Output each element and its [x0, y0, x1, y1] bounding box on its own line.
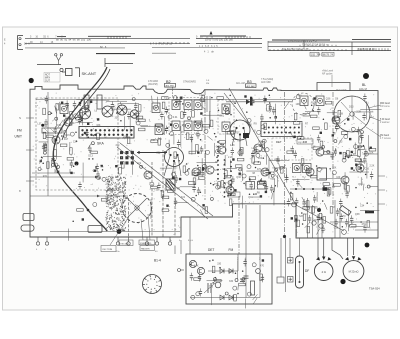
resistor R120	[205, 207, 208, 214]
resistor R164	[241, 147, 244, 154]
junction dot108	[102, 169, 104, 171]
wire DF left to board	[289, 238, 291, 258]
terminal25	[43, 151, 46, 154]
dial cord D	[117, 147, 208, 219]
svg-text:5 16 55 6: 5 16 55 6 7 8	[30, 36, 63, 39]
electrolytic C56	[247, 119, 251, 123]
transistor Q14	[356, 164, 364, 172]
diode D2	[229, 269, 233, 274]
junction dot32	[224, 105, 226, 107]
horizontal wire above bottom edge	[50, 231, 180, 233]
IF transformer T8	[222, 122, 230, 132]
capacitor C68	[362, 113, 365, 121]
junction dot98	[329, 168, 331, 170]
wire diagonal27	[120, 102, 122, 106]
svg-text:1K: 1K	[44, 124, 47, 127]
wire diagonal24	[253, 294, 258, 300]
capacitor C116	[321, 225, 324, 233]
dial pulley wheel (right)	[334, 96, 370, 132]
junction dot39	[218, 109, 220, 111]
solder pad32	[265, 191, 267, 193]
dark component block	[243, 133, 249, 138]
junction dot42	[162, 133, 164, 135]
capacitor C81	[317, 215, 320, 223]
terminal22	[188, 117, 191, 120]
boxed label under B3	[246, 84, 257, 88]
svg-text:OSC TRIM: OSC TRIM	[102, 249, 112, 251]
junction dot24	[222, 144, 224, 146]
electrolytic C59	[342, 158, 346, 162]
junction dot51	[323, 186, 325, 188]
resistor R45	[43, 132, 46, 139]
diode D4	[229, 295, 233, 300]
junction dot97	[365, 174, 367, 176]
left edge tick y181	[26, 180, 34, 182]
big transistor can Q-A	[164, 148, 184, 180]
label box AM PADDER	[140, 246, 155, 251]
capacitor C107	[165, 107, 168, 115]
wire v14	[168, 140, 170, 155]
resistor R163	[252, 157, 255, 164]
svg-text:Q14: Q14	[358, 183, 363, 186]
transistor Q9	[226, 186, 234, 194]
junction dot103	[165, 129, 167, 131]
wire x175 to sub-board	[174, 246, 176, 255]
solder pad29	[172, 177, 174, 179]
wire v25	[347, 209, 349, 231]
resistor R50	[138, 105, 141, 112]
junction dot27	[210, 183, 212, 185]
capacitor C100	[276, 156, 279, 164]
junction dot63	[360, 221, 362, 223]
svg-text:D34: D34	[123, 136, 128, 139]
electrolytic C67	[185, 171, 189, 175]
wire h13	[292, 179, 309, 181]
wire diagonal3	[58, 120, 63, 128]
svg-text:82 6: 82 6	[100, 46, 107, 49]
wire diagonal5	[201, 118, 203, 124]
resistor R151	[192, 111, 195, 118]
wire v46	[360, 177, 362, 186]
svg-text:10K: 10K	[296, 103, 301, 106]
junction dot3	[54, 160, 56, 162]
tuning gang capacitor (dashed circle)	[123, 194, 152, 223]
solder pad33	[234, 189, 236, 191]
resistor R46	[54, 150, 57, 157]
detector sub-board outline	[186, 254, 272, 304]
electrolytic C43	[228, 181, 232, 185]
wire v17	[173, 135, 175, 145]
electrolytic C84	[170, 132, 174, 136]
capacitor C82	[302, 199, 305, 207]
junction dot54	[344, 123, 346, 125]
svg-text:STANDARD: STANDARD	[183, 80, 196, 83]
junction dot12	[88, 158, 90, 160]
resistor R53	[47, 135, 54, 138]
vertical wire x152	[151, 162, 153, 237]
svg-text:R17: R17	[363, 161, 368, 164]
black screw dot top-right	[363, 73, 369, 79]
svg-text:220: 220	[248, 123, 253, 126]
junction dot21	[269, 102, 271, 104]
wire diagonal13	[312, 104, 314, 111]
wire right of sub-board 2	[285, 238, 287, 292]
wire diagonal21	[245, 181, 247, 186]
diode D3	[220, 295, 224, 300]
capacitor C124	[42, 143, 45, 151]
solder pad6	[84, 132, 86, 134]
resistor R93	[313, 147, 320, 150]
svg-text:1K: 1K	[110, 115, 113, 118]
junction dot102	[182, 103, 184, 105]
dial scale frequency numbers	[4, 35, 375, 56]
wire h9	[180, 186, 196, 188]
resistor R159	[323, 217, 326, 224]
resistor R91	[287, 151, 294, 154]
svg-text:5.6K: 5.6K	[176, 102, 181, 105]
svg-text:1K: 1K	[113, 105, 116, 108]
resistor R127	[77, 209, 84, 212]
resistor R47	[127, 137, 130, 144]
capacitor C54	[265, 184, 268, 192]
IF transformer T4	[172, 121, 180, 131]
capacitor C52	[260, 114, 263, 122]
resistor R162	[69, 119, 72, 126]
wire v44	[59, 102, 61, 111]
wire v30	[274, 178, 276, 191]
terminal3	[140, 165, 143, 168]
terminal11	[367, 185, 370, 188]
svg-text:2 warmer: 2 warmer	[380, 121, 390, 124]
vertical wire x128	[128, 198, 130, 237]
sub-board internal wire 3	[259, 254, 261, 298]
junction dot14	[186, 163, 188, 165]
junction dot80	[215, 277, 217, 279]
resistor R104	[327, 190, 330, 197]
wire row y173	[32, 169, 75, 173]
junction dot38	[160, 190, 162, 192]
svg-text:1K: 1K	[104, 136, 107, 139]
ceramic filter DF	[296, 256, 304, 288]
junction dot17	[215, 136, 217, 138]
leader to trimmer label 3	[110, 218, 128, 245]
junction dot66	[302, 223, 304, 225]
wire diagonal22	[237, 286, 239, 290]
resistor R155	[91, 151, 98, 154]
capacitor C87	[250, 182, 253, 190]
resistor R102	[311, 175, 318, 178]
resistor R134	[212, 266, 215, 273]
junction dot86	[235, 272, 237, 274]
svg-text:D36: D36	[271, 171, 276, 174]
solder pad2	[115, 165, 117, 167]
junction dot101	[351, 154, 353, 156]
svg-text:2.2K: 2.2K	[369, 164, 374, 167]
wire v8	[204, 150, 206, 172]
capacitor C56	[175, 175, 178, 183]
electrolytic C74	[191, 295, 195, 299]
wire v42	[51, 160, 53, 168]
solder pad42	[101, 165, 103, 167]
solder pad25	[347, 118, 349, 120]
resistor R69	[189, 151, 196, 154]
junction dot45	[195, 121, 197, 123]
wire v33	[244, 299, 246, 309]
capacitor C73	[360, 133, 363, 141]
wire DF to board	[299, 238, 301, 256]
edge tick y176	[378, 176, 388, 179]
pulley label MW band	[368, 103, 391, 108]
junction dot82	[242, 270, 244, 272]
junction dot92	[116, 112, 118, 114]
cord pulley small 1	[292, 202, 297, 207]
solder pad20	[355, 164, 357, 166]
svg-text:31 25 19 16 13: 31 25 19 16 13	[358, 48, 375, 51]
capacitor C88	[270, 185, 273, 193]
junction dot67	[342, 226, 344, 228]
resistor R83	[334, 184, 341, 187]
resistor R60	[210, 120, 213, 127]
wire with diode row	[226, 99, 292, 105]
resistor R99	[325, 123, 328, 129]
svg-text:L38: L38	[339, 112, 344, 115]
tone control VR2	[258, 178, 267, 189]
wire diagonal34	[151, 96, 153, 103]
svg-text:L19: L19	[137, 162, 142, 165]
svg-text:T13: T13	[313, 206, 318, 209]
speaker SP1 wires	[318, 238, 324, 258]
capacitor C53	[177, 140, 180, 148]
resistor R70	[151, 140, 158, 143]
junction dot76	[72, 221, 74, 223]
small box right of sub-board	[277, 277, 284, 283]
capacitor C86	[231, 176, 234, 184]
resistor R135	[80, 112, 83, 119]
wire v13	[209, 111, 211, 129]
leader to trimmer label 2	[141, 219, 143, 240]
electrolytic C47	[206, 150, 210, 154]
polarity box plus top	[288, 258, 294, 264]
junction dot56	[300, 138, 302, 140]
wire under antenna Y	[37, 64, 61, 66]
capacitor C49	[197, 187, 200, 195]
junction dot61	[348, 157, 350, 159]
wire v23	[316, 192, 318, 202]
FM unit dashed enclosure	[36, 98, 118, 190]
junction dot106	[92, 158, 94, 160]
resistor R88	[303, 113, 310, 116]
wire v35	[84, 100, 86, 110]
svg-text:M 22mΩ: M 22mΩ	[349, 270, 359, 274]
resistor R100	[293, 122, 300, 125]
capacitor C94	[243, 259, 246, 267]
resistor R57	[227, 131, 234, 134]
junction dot109	[320, 217, 322, 219]
capacitor C112	[96, 171, 99, 179]
solder pad46	[70, 172, 72, 174]
svg-text:C18: C18	[334, 227, 339, 230]
junction dot8	[94, 134, 96, 136]
resistor R113	[307, 226, 310, 233]
solder pad14	[200, 112, 202, 114]
electrolytic C66	[191, 197, 195, 201]
resistor R121	[221, 181, 224, 188]
junction dot15	[269, 94, 271, 96]
resistor R43	[44, 144, 47, 151]
electrolytic C46	[200, 98, 204, 102]
IFT group dashed enclosure 1	[169, 98, 205, 135]
junction dot18	[194, 183, 196, 185]
resistor R115	[162, 209, 169, 212]
wire into Q-A	[137, 151, 167, 153]
electrolytic C78	[247, 292, 251, 296]
junction dot104	[95, 166, 97, 168]
IF transformer T1	[172, 100, 180, 110]
horizontal AGC wire	[30, 195, 128, 197]
IF transformer T13	[155, 125, 163, 135]
capacitor C71	[357, 127, 360, 135]
electrolytic C85	[204, 129, 208, 133]
resistor R133	[260, 274, 263, 281]
wire h32	[346, 154, 358, 156]
svg-text:L13: L13	[103, 112, 108, 115]
wire v4	[129, 116, 131, 133]
capacitor C99	[134, 102, 137, 110]
junction dot75	[253, 193, 255, 195]
wire diagonal29	[273, 173, 278, 179]
wire diagonal9	[201, 105, 206, 110]
resistor R160	[43, 108, 46, 115]
terminal ring B	[319, 224, 323, 228]
capacitor C103	[330, 152, 333, 160]
svg-text:T33: T33	[270, 178, 275, 181]
label 170 MAR (AM-PM)	[148, 80, 158, 86]
capacitor C44	[54, 126, 57, 134]
electrolytic C60	[306, 169, 310, 173]
label MPX OUT block	[44, 73, 60, 83]
capacitor C77	[339, 199, 342, 207]
junction dot110	[217, 160, 219, 162]
solder pad4	[61, 102, 63, 104]
wire v32	[237, 260, 239, 280]
resistor R128	[101, 199, 108, 202]
resistor R165	[219, 141, 226, 144]
wire diagonal30	[279, 163, 280, 170]
sub-board cap bars	[244, 276, 249, 278]
svg-text:T29: T29	[214, 169, 219, 172]
connector housing mid bottom	[88, 226, 102, 233]
solder pad19	[360, 167, 362, 169]
electrolytic C77	[196, 292, 200, 296]
resistor R90	[324, 152, 331, 155]
electrolytic C68	[203, 164, 207, 168]
junction dot16	[200, 139, 202, 141]
junction dot64	[322, 200, 324, 202]
terminal2	[38, 168, 41, 171]
svg-text:T11: T11	[365, 210, 370, 213]
wire diagonal10	[291, 132, 294, 138]
resistor R78	[188, 182, 195, 185]
capacitor C45	[251, 150, 254, 158]
resistor R116	[183, 166, 186, 173]
junction dot117	[41, 157, 43, 159]
junction dot7	[81, 118, 83, 120]
capacitor C119	[44, 119, 47, 127]
solder pad35	[262, 259, 264, 261]
wire diagonal15	[358, 135, 360, 140]
wire v16	[229, 160, 231, 172]
resistor R101	[320, 141, 323, 148]
wire v10	[201, 158, 203, 177]
svg-text:T14: T14	[227, 271, 232, 274]
resistor R143	[262, 141, 265, 148]
capacitor C118	[65, 100, 68, 108]
resistor R167	[239, 149, 242, 156]
svg-text:L12: L12	[370, 116, 375, 119]
junction dot69	[188, 168, 190, 170]
wire h8	[252, 196, 261, 198]
solder pad12	[239, 173, 241, 175]
junction dot40	[273, 191, 275, 193]
wire h12	[354, 111, 373, 113]
capacitor C50	[165, 126, 168, 134]
resistor R110	[330, 207, 333, 214]
wire v45	[214, 143, 216, 156]
svg-text:DET: DET	[276, 140, 282, 144]
battery connector socket B1	[143, 275, 162, 294]
resistor R61	[198, 168, 201, 175]
wire diagonal8	[271, 193, 274, 199]
junction dot113	[363, 145, 365, 147]
svg-text:0.01: 0.01	[222, 168, 227, 171]
black screw dot right margin	[365, 243, 370, 248]
dial cord C	[120, 143, 213, 216]
transistor Q8	[332, 116, 340, 124]
electrolytic C82	[332, 171, 336, 175]
cord pulley small 2	[342, 230, 347, 235]
wire to edge x307	[307, 198, 309, 238]
capacitor C75	[363, 225, 366, 233]
solder pad26	[351, 167, 353, 169]
capacitor C111	[78, 182, 81, 190]
solder pad38	[370, 147, 372, 149]
svg-text:81a 92 784 4 16a 76 78: 81a 92 784 4 16a 76 78	[282, 48, 309, 51]
resistor R157	[290, 193, 293, 200]
svg-text:88 90 92 94 96 98 102 1: 88 90 92 94 96 98 102 106	[56, 39, 91, 42]
svg-text:Q17: Q17	[313, 219, 318, 222]
solder pad15	[202, 168, 204, 170]
svg-text:4.7K: 4.7K	[194, 265, 199, 268]
junction dot1	[79, 104, 81, 106]
electrolytic C49	[257, 130, 261, 134]
junction dot on divider x284	[283, 235, 286, 238]
resistor R138	[139, 119, 146, 122]
resistor R131	[194, 278, 201, 281]
boxed label under B2	[165, 83, 176, 87]
resistor R129	[239, 283, 246, 286]
resistor R79	[217, 97, 224, 100]
wire h3	[140, 125, 148, 127]
resistor R73	[229, 193, 236, 196]
wire diagonal32	[338, 138, 342, 145]
wire h6	[197, 161, 217, 163]
resistor R103	[359, 137, 362, 144]
speaker SP1 (4 ohm)	[314, 257, 333, 281]
solder pad24	[313, 97, 315, 99]
electrolytic capacitor C31	[215, 282, 221, 288]
resistor R67	[197, 172, 204, 175]
junction dot10	[73, 165, 75, 167]
